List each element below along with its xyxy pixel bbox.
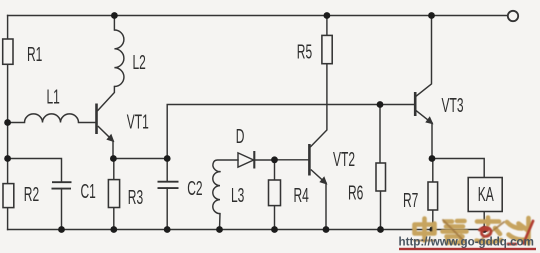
wire KA bottom lead xyxy=(483,212,485,230)
wire R3 top lead xyxy=(113,159,115,180)
node bottom L3 xyxy=(216,226,223,233)
node bottom VT2 emitter xyxy=(323,226,330,233)
node bottom C1 xyxy=(58,226,65,233)
node top rail L2 xyxy=(111,12,118,19)
wire diode branch L3 hook xyxy=(213,160,238,172)
svg-text:R7: R7 xyxy=(403,190,418,212)
wire L1 left lead xyxy=(8,122,25,124)
wire R5 bottom to VT2 collector xyxy=(311,64,327,147)
inductor L1 xyxy=(25,114,79,123)
wire R4 top lead xyxy=(274,160,276,180)
wire R6 top lead xyxy=(379,105,381,164)
svg-text:L2: L2 xyxy=(133,52,146,74)
node bottom R3 xyxy=(110,226,117,233)
char 2 xyxy=(443,221,467,243)
terminal circle top right xyxy=(508,11,518,21)
diode D xyxy=(238,151,254,169)
inductor L3 xyxy=(213,172,220,214)
char 3 xyxy=(477,218,502,243)
svg-text:KA: KA xyxy=(478,184,494,206)
char 4 xyxy=(507,218,529,244)
node VT3 emitter xyxy=(429,155,436,162)
transistor VT3 xyxy=(415,92,432,124)
wire L1 right lead to VT1 base xyxy=(79,122,96,124)
node top rail VT3 collector xyxy=(428,12,435,19)
node bottom R7 xyxy=(429,226,436,233)
wire R4 bottom lead xyxy=(274,206,276,230)
svg-text:L3: L3 xyxy=(231,185,244,207)
watermark red underline xyxy=(399,248,536,250)
wire left rail xyxy=(7,16,9,230)
wire R3 bottom lead xyxy=(113,208,115,230)
node VT1 emitter xyxy=(110,155,117,162)
svg-text:C1: C1 xyxy=(81,181,96,203)
wire diode cathode to R4 node xyxy=(255,159,274,161)
wire VT3 collector xyxy=(416,16,432,97)
wire R6 bottom lead xyxy=(380,191,382,230)
node R6 VT3 base xyxy=(377,101,384,108)
resistor R6 xyxy=(376,163,386,191)
node diode R4 VT2 base xyxy=(271,156,278,163)
svg-text:R4: R4 xyxy=(294,185,309,207)
node bottom R4 xyxy=(271,226,278,233)
svg-text:http://www.go-gddq.com: http://www.go-gddq.com xyxy=(399,235,534,248)
wire feedback C2 to VT3 base xyxy=(167,105,414,159)
resistor R1 xyxy=(3,39,13,64)
wire C1 bottom lead xyxy=(61,189,63,230)
node bottom KA xyxy=(481,226,488,233)
capacitor C2 xyxy=(158,182,179,188)
wire bottom rail xyxy=(8,229,485,231)
wire L2 top lead xyxy=(113,16,115,31)
svg-text:D: D xyxy=(236,126,245,148)
wire C2 bottom lead xyxy=(166,188,168,229)
transistor VT1 xyxy=(97,104,114,142)
wire mid row VT1e to C2 xyxy=(113,158,167,160)
resistor R2 xyxy=(3,184,14,208)
wire VT1 emitter vertical xyxy=(112,141,114,159)
svg-text:VT2: VT2 xyxy=(333,149,355,171)
svg-text:C2: C2 xyxy=(187,178,202,200)
svg-text:R3: R3 xyxy=(128,187,143,209)
svg-text:VT3: VT3 xyxy=(442,95,464,117)
wire VT2 base lead xyxy=(275,159,309,161)
wire VT2 emitter vertical xyxy=(325,183,327,230)
node left rail C1 xyxy=(4,155,11,162)
wire L2 bottom to VT1 collector xyxy=(98,87,115,111)
wire VT3 emitter to KA xyxy=(432,159,484,178)
transistor VT2 xyxy=(309,144,326,184)
capacitor C1 xyxy=(52,182,72,188)
svg-text:R5: R5 xyxy=(297,41,312,63)
node top rail R5 xyxy=(324,12,331,19)
svg-text:R1: R1 xyxy=(27,44,42,66)
resistor R7 xyxy=(428,182,438,210)
node bottom C2 xyxy=(164,226,171,233)
wire C2 top lead xyxy=(166,159,168,182)
inductor L2 xyxy=(114,30,124,87)
svg-text:R2: R2 xyxy=(24,184,39,206)
resistor R5 xyxy=(322,35,332,63)
svg-text:L1: L1 xyxy=(47,86,60,108)
wire top rail xyxy=(8,15,508,17)
svg-text:VT1: VT1 xyxy=(127,111,149,133)
node bottom R6 xyxy=(377,226,384,233)
char 1 xyxy=(415,219,435,241)
svg-text:R6: R6 xyxy=(348,183,363,205)
watermark chinese characters xyxy=(414,218,533,245)
node C2 top xyxy=(164,155,171,162)
node left rail L1 xyxy=(4,119,11,126)
wire VT3 emitter vertical xyxy=(431,123,433,159)
wire R7 top lead xyxy=(432,159,434,183)
resistor R4 xyxy=(269,180,281,206)
resistor R3 xyxy=(108,180,119,208)
wire R7 bottom lead xyxy=(432,210,434,230)
wire C1 branch xyxy=(8,159,62,183)
wire R5 top lead xyxy=(326,16,328,36)
relay box KA xyxy=(468,178,502,212)
wire L3 bottom lead xyxy=(219,214,222,230)
